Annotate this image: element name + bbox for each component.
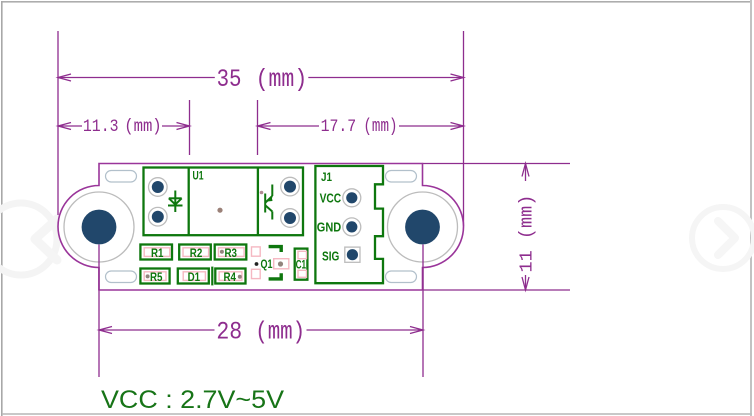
svg-text:GND: GND — [317, 219, 341, 234]
dim line 11mm vertical — [525, 164, 527, 182]
Q1 black dot — [255, 262, 259, 266]
op-amp U1 outline box — [144, 168, 304, 236]
svg-text:R1: R1 — [151, 246, 164, 260]
Q1 center pad dot — [278, 261, 283, 266]
oval pad top-left — [106, 171, 137, 183]
svg-text:17.7: 17.7 — [321, 116, 357, 137]
svg-text:11.3: 11.3 — [83, 116, 119, 137]
J1 pad GND — [343, 218, 361, 236]
D1 polarity bar — [211, 267, 213, 286]
svg-text:VCC : 2.7V~5V: VCC : 2.7V~5V — [101, 386, 284, 414]
mounting hole pad right — [388, 192, 458, 262]
svg-text:(mm): (mm) — [124, 117, 161, 137]
svg-text:35: 35 — [217, 65, 242, 93]
oval pad bottom-left — [106, 271, 137, 283]
resistor R3 — [215, 245, 247, 261]
capacitor C1 — [295, 249, 308, 280]
dim extension line right (35mm) — [463, 31, 465, 226]
svg-text:R3: R3 — [225, 246, 238, 260]
dim line 28mm — [99, 329, 215, 331]
svg-text:(mm): (mm) — [255, 318, 305, 346]
Q1 outline brackets — [269, 247, 282, 279]
svg-text:11 (mm): 11 (mm) — [518, 195, 538, 273]
transistor Q (phototransistor symbol inside U1) — [265, 185, 272, 220]
carousel prev chevron (left, faint) — [0, 203, 57, 275]
dim line 17.7mm — [258, 125, 320, 127]
oval pad top-right — [386, 171, 417, 183]
page left border — [1, 1, 3, 416]
svg-text:J1: J1 — [321, 170, 332, 184]
oval pad bottom-right — [386, 271, 417, 283]
PCB board outline — [58, 164, 463, 291]
page right border — [750, 0, 752, 416]
U1 pin pad 2 — [149, 207, 168, 226]
svg-text:R5: R5 — [150, 270, 163, 284]
J1 pad SIG (square) — [345, 247, 360, 262]
J1 pad VCC — [343, 189, 361, 207]
resistor R5 — [140, 269, 169, 285]
dim extension line bottom (11mm) — [423, 289, 571, 291]
U1 pin pad 3 — [281, 177, 300, 196]
svg-text:VCC: VCC — [320, 190, 342, 205]
fiducial dot in U1 — [217, 208, 222, 213]
connector J1 outline (castellated) — [315, 166, 383, 283]
dim tick x=189.5 — [189, 100, 191, 155]
dim line 35mm — [58, 77, 215, 79]
svg-text:D1: D1 — [188, 270, 201, 284]
resistor R2 — [179, 245, 211, 261]
dim extension line left (35mm) — [57, 31, 59, 215]
svg-text:C1: C1 — [296, 258, 307, 272]
U1 pin pad 1 — [149, 178, 168, 197]
svg-text:R2: R2 — [190, 246, 203, 260]
svg-text:28: 28 — [216, 318, 242, 346]
28mm extension overlay through holes — [99, 245, 423, 291]
page bottom border — [2, 413, 752, 415]
svg-text:U1: U1 — [193, 169, 204, 183]
dim tick x=257.5 — [257, 100, 259, 155]
U1 pin pad 4 — [281, 209, 300, 228]
resistor R4 — [215, 269, 245, 285]
svg-text:Q1: Q1 — [261, 257, 273, 271]
svg-text:R4: R4 — [224, 270, 237, 284]
svg-text:(mm): (mm) — [256, 67, 308, 95]
dim line 11.3mm — [58, 125, 82, 127]
transistor Q1 pads — [252, 247, 289, 279]
diode D (emitter LED symbol inside U1) — [168, 191, 183, 213]
dim extension line left (28mm) — [98, 244, 100, 377]
mounting hole pad left — [64, 192, 134, 262]
small dot near transistor — [260, 191, 264, 195]
resistor R1 — [140, 245, 172, 261]
svg-text:SIG: SIG — [322, 249, 339, 264]
svg-text:(mm): (mm) — [363, 115, 397, 136]
dim extension line top (11mm) — [423, 163, 571, 165]
diode D1 — [178, 269, 209, 285]
page top border — [2, 1, 751, 3]
carousel next chevron (right, faint) — [692, 207, 754, 269]
dim extension line right (28mm) — [422, 244, 424, 377]
